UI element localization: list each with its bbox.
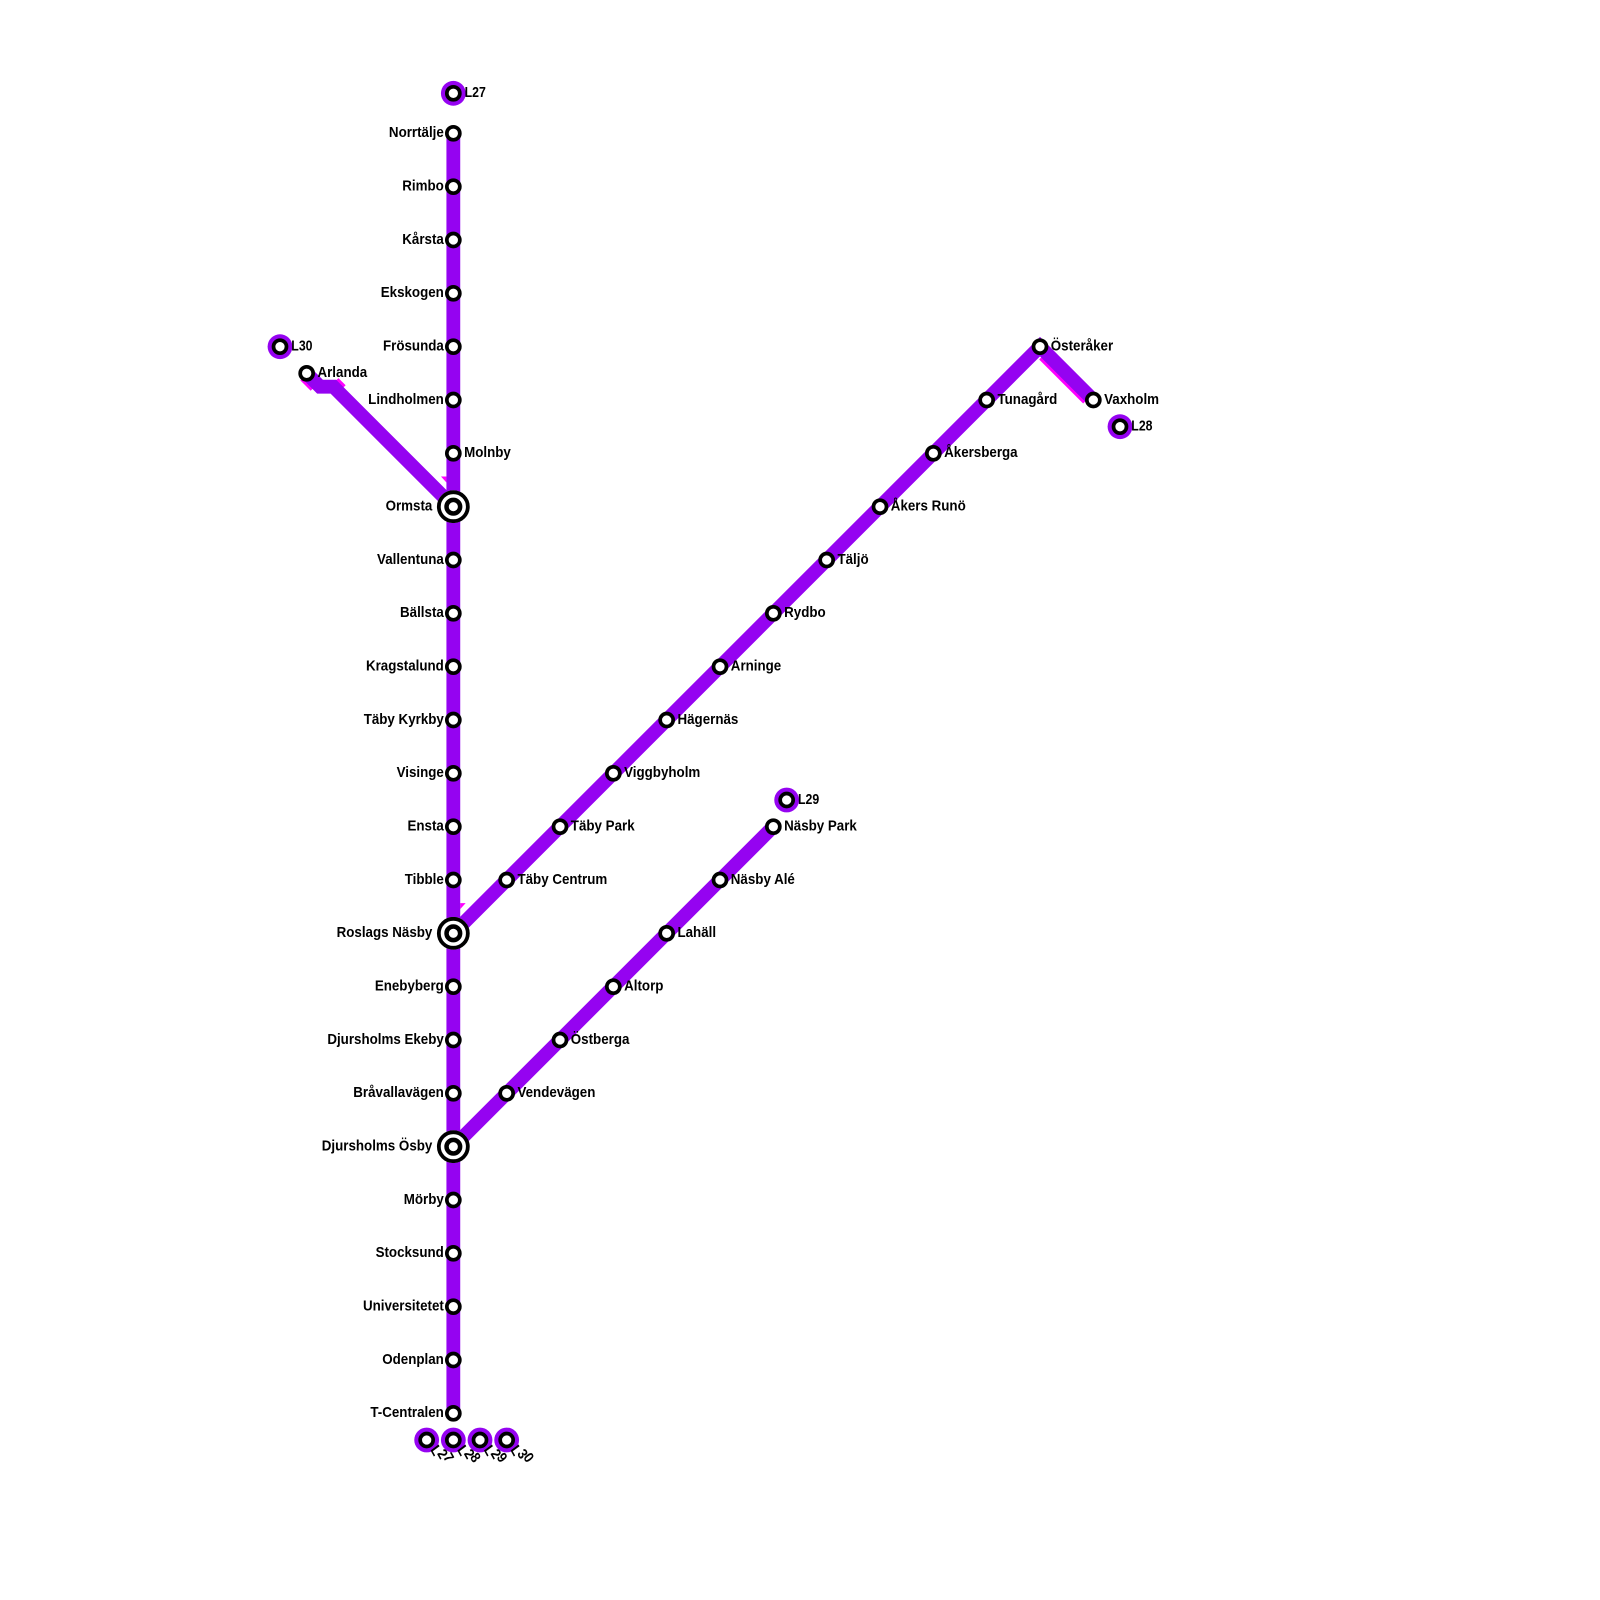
station Täby Kyrkby: [364, 711, 460, 728]
svg-text:Åkersberga: Åkersberga: [944, 444, 1018, 461]
svg-text:Djursholms Ekeby: Djursholms Ekeby: [327, 1031, 444, 1048]
svg-text:Enebyberg: Enebyberg: [375, 978, 444, 995]
station Vendevägen: [500, 1084, 595, 1101]
station Lahäll: [660, 924, 716, 941]
svg-text:Altorp: Altorp: [624, 978, 663, 995]
station Frösunda: [383, 338, 460, 355]
station Ekskogen: [381, 284, 460, 301]
station Näsby Park: [767, 818, 858, 835]
svg-text:Näsby Park: Näsby Park: [784, 818, 857, 835]
station Arninge: [714, 658, 782, 675]
svg-text:Universitetet: Universitetet: [363, 1298, 444, 1315]
svg-text:Ensta: Ensta: [407, 818, 444, 835]
svg-text:Lahäll: Lahäll: [677, 924, 716, 941]
svg-text:Norrtälje: Norrtälje: [389, 124, 444, 141]
station Altorp: [607, 978, 664, 995]
station Åkers Runö: [874, 498, 966, 515]
svg-text:Lindholmen: Lindholmen: [368, 391, 444, 408]
station Mörby: [404, 1191, 460, 1208]
svg-text:Täby Kyrkby: Täby Kyrkby: [364, 711, 445, 728]
station Rydbo: [767, 604, 826, 621]
svg-text:Kragstalund: Kragstalund: [366, 658, 444, 675]
station Bällsta: [400, 604, 460, 621]
station Vaxholm: [1087, 391, 1159, 408]
svg-text:Täljö: Täljö: [837, 551, 868, 568]
line trunk L27 Norrtälje to T-Centralen: [446, 133, 460, 1413]
station Universitetet: [363, 1298, 460, 1315]
svg-text:Molnby: Molnby: [464, 444, 511, 461]
station Österåker: [1034, 338, 1114, 355]
station Hägernäs: [660, 711, 738, 728]
svg-text:Östberga: Östberga: [571, 1031, 630, 1048]
svg-text:Ekskogen: Ekskogen: [381, 284, 444, 301]
svg-text:Arninge: Arninge: [731, 658, 781, 675]
station Visinge: [397, 764, 460, 781]
station Tunagård: [980, 391, 1057, 408]
station Täby Park: [554, 818, 636, 835]
svg-text:Odenplan: Odenplan: [382, 1351, 444, 1368]
svg-text:Visinge: Visinge: [397, 764, 444, 781]
svg-text:L29: L29: [798, 791, 819, 808]
station Lindholmen: [368, 391, 460, 408]
station Näsby Alé: [714, 871, 795, 888]
station Odenplan: [382, 1351, 460, 1368]
svg-text:Hägernäs: Hägernäs: [677, 711, 738, 728]
station Vallentuna: [377, 551, 460, 568]
magenta notch sliver at Ormsta junction: [441, 477, 446, 483]
svg-text:Rydbo: Rydbo: [784, 604, 826, 621]
terminus L27 at (426.67,1440): [414, 1428, 459, 1470]
station Enebyberg: [375, 978, 460, 995]
terminus L30 at (506.67,1440): [494, 1428, 539, 1470]
station Östberga: [554, 1031, 630, 1048]
line L28 Österskär branch Roslags Näsby to Österåker to Vaxholm: [453, 347, 1093, 934]
svg-text:Ormsta: Ormsta: [386, 498, 433, 515]
svg-text:T-Centralen: T-Centralen: [370, 1404, 443, 1421]
line L29 Näsby Park branch from Djursholms Ösby: [453, 827, 773, 1147]
svg-text:Täby Centrum: Täby Centrum: [517, 871, 607, 888]
svg-text:L27: L27: [465, 84, 486, 101]
svg-text:Österåker: Österåker: [1051, 338, 1113, 355]
svg-text:Vallentuna: Vallentuna: [377, 551, 444, 568]
station Tibble: [405, 871, 460, 888]
terminus L29 at (480,1440): [468, 1428, 513, 1470]
station Djursholms Ösby: [322, 1130, 470, 1163]
magenta underlay sliver: Österåker-Vaxholm lower edge: [1040, 358, 1084, 402]
svg-text:Vaxholm: Vaxholm: [1104, 391, 1159, 408]
station Rimbo: [402, 178, 460, 195]
svg-text:Frösunda: Frösunda: [383, 338, 444, 355]
svg-text:Vendevägen: Vendevägen: [517, 1084, 595, 1101]
line L30 Arlanda branch: [307, 373, 454, 506]
svg-text:L28: L28: [1131, 418, 1152, 435]
station Roslags Näsby: [337, 917, 470, 950]
station Kårsta: [402, 231, 460, 248]
station Täljö: [820, 551, 868, 568]
svg-text:Täby Park: Täby Park: [571, 818, 635, 835]
svg-text:Tunagård: Tunagård: [997, 391, 1057, 408]
svg-text:L30: L30: [291, 338, 312, 355]
svg-text:Näsby Alé: Näsby Alé: [731, 871, 795, 888]
svg-text:Rimbo: Rimbo: [402, 178, 444, 195]
svg-text:Tibble: Tibble: [405, 871, 444, 888]
svg-text:Bällsta: Bällsta: [400, 604, 444, 621]
station Ormsta: [386, 490, 470, 523]
station Arlanda: [300, 364, 368, 381]
svg-text:Bråvallavägen: Bråvallavägen: [353, 1084, 444, 1101]
svg-text:Roslags Näsby: Roslags Näsby: [337, 924, 433, 941]
terminus L28 at (1120,426.67): [1108, 414, 1153, 439]
svg-text:Mörby: Mörby: [404, 1191, 445, 1208]
station Stocksund: [376, 1244, 460, 1261]
terminus L28 at (453.33,1440): [441, 1428, 486, 1470]
station T-Centralen: [370, 1404, 459, 1421]
station Bråvallavägen: [353, 1084, 460, 1101]
station Viggbyholm: [607, 764, 700, 781]
station Åkersberga: [927, 444, 1018, 461]
svg-text:Viggbyholm: Viggbyholm: [624, 764, 700, 781]
station Kragstalund: [366, 658, 460, 675]
terminus L30 at (280,346.67): [268, 334, 313, 359]
svg-text:Åkers Runö: Åkers Runö: [891, 498, 966, 515]
svg-text:Stocksund: Stocksund: [376, 1244, 444, 1261]
terminus L27 at (453.33,93.33): [441, 81, 486, 106]
svg-text:Djursholms Ösby: Djursholms Ösby: [322, 1138, 433, 1155]
magenta notch sliver at Roslags Näsby junction: [460, 903, 465, 909]
station Djursholms Ekeby: [327, 1031, 459, 1048]
station Norrtälje: [389, 124, 460, 141]
station Täby Centrum: [500, 871, 607, 888]
svg-text:Arlanda: Arlanda: [317, 364, 367, 381]
station Molnby: [447, 444, 512, 461]
svg-text:Kårsta: Kårsta: [402, 231, 444, 248]
magenta underlay sliver: Arlanda branch upper edge after bend: [337, 379, 344, 386]
station Ensta: [407, 818, 459, 835]
terminus L29 at (786.67,800): [774, 788, 819, 813]
magenta underlay sliver: Arlanda branch first segment lower edge: [302, 379, 312, 389]
